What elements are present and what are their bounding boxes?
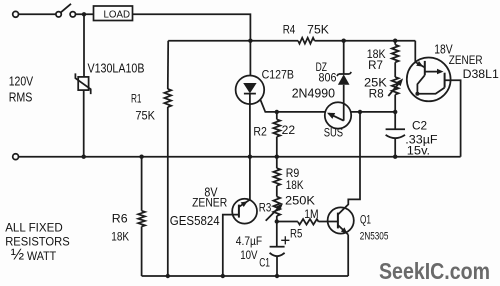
svg-text:ZENER: ZENER (192, 195, 227, 209)
svg-text:SeekIC.com: SeekIC.com (379, 258, 490, 284)
svg-text:120V: 120V (9, 74, 34, 88)
svg-text:R4: R4 (283, 22, 296, 36)
svg-text:22: 22 (282, 123, 296, 137)
svg-text:4.7µF: 4.7µF (236, 234, 262, 248)
svg-text:R5: R5 (290, 227, 303, 241)
svg-text:18K: 18K (286, 178, 304, 192)
svg-text:R2: R2 (253, 125, 267, 139)
svg-text:R8: R8 (369, 86, 384, 100)
svg-text:LOAD: LOAD (104, 9, 131, 21)
svg-text:C127B: C127B (262, 68, 294, 82)
svg-text:10V: 10V (240, 248, 257, 262)
svg-text:75K: 75K (135, 108, 155, 122)
svg-text:½: ½ (11, 246, 24, 263)
svg-text:WATT: WATT (27, 249, 57, 263)
svg-text:SUS: SUS (324, 127, 344, 139)
svg-text:R1: R1 (131, 92, 142, 106)
svg-text:2N4990: 2N4990 (292, 86, 335, 100)
svg-text:R3: R3 (259, 201, 272, 215)
svg-text:ALL FIXED: ALL FIXED (5, 221, 63, 235)
svg-text:Q1: Q1 (360, 212, 371, 226)
svg-text:D38L1: D38L1 (463, 67, 500, 81)
svg-text:2N5305: 2N5305 (360, 230, 389, 242)
svg-text:15v.: 15v. (407, 144, 430, 158)
svg-text:C1: C1 (259, 255, 270, 269)
svg-text:V130LA10B: V130LA10B (88, 62, 145, 76)
svg-text:1M: 1M (304, 207, 318, 221)
svg-text:C2: C2 (412, 118, 427, 132)
svg-text:RMS: RMS (9, 90, 33, 104)
svg-text:ZENER: ZENER (449, 53, 483, 67)
svg-text:806: 806 (319, 70, 337, 84)
svg-text:75K: 75K (307, 22, 329, 36)
svg-text:R6: R6 (112, 211, 128, 225)
svg-text:250K: 250K (285, 193, 315, 207)
svg-text:R7: R7 (368, 58, 383, 72)
svg-text:18K: 18K (111, 229, 129, 243)
svg-text:GES5824: GES5824 (170, 214, 220, 228)
